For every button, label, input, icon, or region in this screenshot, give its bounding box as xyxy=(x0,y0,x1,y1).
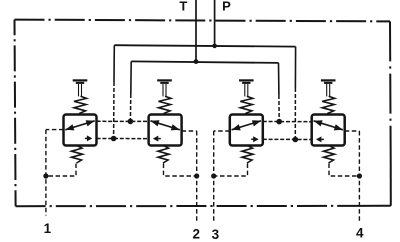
wire T drop right xyxy=(278,63,281,122)
node pilot 2 xyxy=(194,173,199,178)
pilot line valve 4 xyxy=(329,164,359,177)
wire P connection valves 3-4 xyxy=(263,138,312,140)
output line port 3 xyxy=(214,131,230,223)
wire T drop left xyxy=(129,61,132,121)
node T junction xyxy=(194,59,199,64)
valve V4 flow arrow xyxy=(314,121,343,130)
node P34 xyxy=(293,137,299,143)
valve V3 box xyxy=(230,115,263,146)
port T line xyxy=(195,0,197,62)
enclosure border bottom xyxy=(16,205,360,207)
valve V3 flow arrow xyxy=(232,121,261,130)
pilot line valve 2 xyxy=(164,164,197,177)
node T12 xyxy=(128,119,134,125)
valve V1 drain arrow xyxy=(85,137,88,139)
valve V1 return spring xyxy=(72,146,83,163)
wire T connection valves 1-2 xyxy=(97,120,149,122)
valve V3 return spring xyxy=(242,146,253,163)
valve V2 plunger xyxy=(157,79,172,113)
valve V2 drain arrow xyxy=(158,138,161,140)
node pilot 4 xyxy=(357,173,362,178)
valve V2 flow arrow xyxy=(150,121,179,130)
wire P drop right xyxy=(294,47,296,140)
T rail xyxy=(131,61,278,63)
valve V3 plunger xyxy=(239,79,254,113)
wire T connection valves 3-4 xyxy=(263,121,312,123)
node P junction xyxy=(212,44,217,49)
valve V4 box xyxy=(312,115,345,146)
svg-text:4: 4 xyxy=(356,225,364,240)
pilot line valve 1 xyxy=(46,164,76,177)
node P12 xyxy=(111,136,117,142)
node T34 xyxy=(276,119,282,125)
valve V3 drain arrow xyxy=(251,138,254,140)
svg-text:P: P xyxy=(222,0,231,14)
output line port 1 xyxy=(46,130,64,216)
svg-text:3: 3 xyxy=(212,227,220,242)
valve V1 box xyxy=(64,115,97,146)
enclosure border (dash-dot) top xyxy=(15,20,391,22)
valve V4 return spring xyxy=(324,146,335,163)
output line port 4 xyxy=(345,131,360,223)
pilot line valve 3 xyxy=(214,164,248,177)
output line port 2 xyxy=(182,131,197,223)
valve V4 drain arrow xyxy=(321,138,324,140)
valve V4 plunger xyxy=(321,79,336,113)
valve V2 box xyxy=(149,115,182,146)
svg-text:2: 2 xyxy=(193,227,201,242)
wire P drop left xyxy=(113,45,116,138)
svg-text:T: T xyxy=(179,0,187,13)
valve V2 return spring xyxy=(158,146,169,163)
wire P connection valves 1-2 xyxy=(97,138,149,140)
valve V1 plunger xyxy=(73,79,88,113)
node pilot 1 xyxy=(43,173,48,178)
enclosure border right xyxy=(389,21,392,162)
node pilot 3 xyxy=(211,173,216,178)
P rail xyxy=(114,45,295,46)
port P line xyxy=(214,0,216,46)
valve V1 flow arrow xyxy=(65,121,94,130)
enclosure border left xyxy=(15,20,16,207)
svg-text:1: 1 xyxy=(44,221,52,236)
